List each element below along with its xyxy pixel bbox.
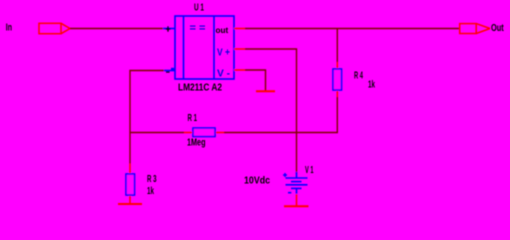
wire input port to U1 + pin — [70, 28, 163, 30]
ground under R3 — [118, 203, 142, 205]
resistor R3 — [126, 164, 135, 204]
battery V1 — [286, 172, 308, 194]
svg-text:In: In — [6, 22, 12, 34]
wire R4 top vertical — [336, 29, 338, 63]
wire left to R1 — [130, 132, 184, 134]
wire out pin to output port — [245, 28, 460, 30]
svg-text:1k: 1k — [147, 185, 154, 197]
battery ground lead — [296, 194, 298, 206]
U1 minus pin nub — [171, 68, 174, 71]
svg-text:V +: V + — [217, 48, 230, 59]
svg-text:out: out — [216, 25, 229, 35]
svg-text:V -: V - — [217, 69, 230, 80]
ground under V- — [256, 90, 275, 92]
U1 out pin stub — [234, 28, 245, 30]
svg-text:10Vdc: 10Vdc — [244, 175, 270, 187]
resistor R4 — [333, 62, 342, 97]
wire V+ pin to battery — [245, 49, 297, 173]
U1 minus input marker — [166, 71, 170, 73]
op-amp comparator U1 — [163, 16, 234, 79]
svg-text:= =: = = — [190, 23, 206, 34]
svg-text:R 1: R 1 — [188, 112, 198, 124]
svg-text:R 4: R 4 — [354, 70, 363, 82]
svg-text:U 1: U 1 — [194, 2, 204, 14]
svg-text:LM211C A2: LM211C A2 — [178, 82, 222, 94]
wire V- pin to ground — [245, 70, 266, 91]
svg-text:V 1: V 1 — [305, 164, 314, 176]
svg-text:1k: 1k — [368, 79, 375, 91]
U1 plus input marker — [166, 26, 171, 31]
wire U1 minus input and left vertical — [130, 71, 164, 164]
wire R1 to R4 bottom — [224, 97, 337, 133]
U1 V- pin stub — [234, 69, 245, 71]
svg-text:1Meg: 1Meg — [187, 137, 206, 149]
resistor R1 — [184, 128, 224, 137]
output port Out — [460, 24, 490, 34]
battery minus marker — [288, 192, 291, 194]
ground under battery — [284, 205, 309, 207]
input port In — [39, 23, 70, 33]
svg-text:R 3: R 3 — [147, 173, 157, 185]
U1 V+ pin stub — [234, 48, 245, 50]
svg-text:Out: Out — [491, 23, 504, 34]
battery plus marker — [283, 173, 287, 177]
